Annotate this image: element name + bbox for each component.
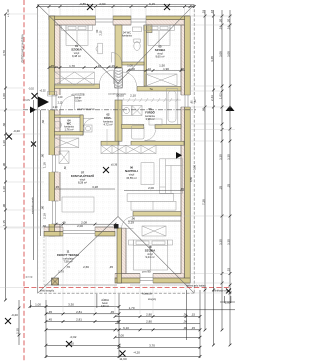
svg-text:-3,3cm: -3,3cm <box>74 100 81 103</box>
svg-text:,60: ,60 <box>226 107 230 112</box>
svg-text:szegély: szegély <box>23 100 31 102</box>
svg-text:,45: ,45 <box>109 265 114 269</box>
svg-text:2,81: 2,81 <box>76 310 82 314</box>
svg-text:2,00: 2,00 <box>148 186 154 190</box>
svg-text:-0,20: -0,20 <box>13 129 20 133</box>
svg-text:,18: ,18 <box>210 9 214 14</box>
svg-text:2,10: 2,10 <box>100 30 103 35</box>
svg-text:9,24 m²: 9,24 m² <box>145 255 154 259</box>
svg-text:,15: ,15 <box>191 326 196 330</box>
svg-text:ajtó tokosztó vonala: ajtó tokosztó vonala <box>77 107 96 110</box>
svg-text:-0,02: -0,02 <box>70 335 77 339</box>
svg-text:3,30: 3,30 <box>218 154 222 160</box>
svg-text:1,00: 1,00 <box>58 96 63 99</box>
svg-text:,45: ,45 <box>180 67 185 71</box>
svg-text:±0,36: ±0,36 <box>111 164 118 167</box>
svg-text:NAPPALI: NAPPALI <box>125 169 138 173</box>
svg-text:4,50: 4,50 <box>189 176 193 182</box>
svg-text:,40: ,40 <box>194 99 197 103</box>
svg-text:9,48 m²: 9,48 m² <box>72 54 81 58</box>
svg-text:+0,02: +0,02 <box>39 90 46 93</box>
svg-text:,46: ,46 <box>42 224 47 228</box>
svg-text:1,00: 1,00 <box>129 67 135 71</box>
svg-text:11,60: 11,60 <box>119 357 127 361</box>
svg-text:,45: ,45 <box>54 65 58 69</box>
svg-text:3,70: 3,70 <box>2 50 6 56</box>
svg-text:,90: ,90 <box>2 203 6 208</box>
svg-text:4,72 m²: 4,72 m² <box>103 123 112 127</box>
svg-text:,90: ,90 <box>2 162 6 167</box>
svg-text:3,30: 3,30 <box>226 154 230 160</box>
svg-text:,25: ,25 <box>218 185 222 190</box>
svg-text:2,15: 2,15 <box>58 102 63 105</box>
svg-text:,45: ,45 <box>48 318 53 322</box>
svg-text:1,00: 1,00 <box>2 93 6 99</box>
svg-text:7,28: 7,28 <box>201 199 205 205</box>
svg-text:2,00: 2,00 <box>77 224 83 228</box>
svg-text:9,60 m²: 9,60 m² <box>155 55 164 59</box>
svg-text:,60: ,60 <box>2 122 6 127</box>
svg-text:,60: ,60 <box>41 119 45 124</box>
svg-text:+1,10: +1,10 <box>6 9 10 17</box>
svg-text:3,30: 3,30 <box>218 239 222 245</box>
svg-text:,90: ,90 <box>41 205 45 210</box>
svg-text:1,70: 1,70 <box>58 270 64 274</box>
svg-text:-0,60: -0,60 <box>99 2 106 6</box>
svg-text:3,28: 3,28 <box>92 185 98 189</box>
svg-text:03: 03 <box>149 107 152 111</box>
svg-text:,20: ,20 <box>226 18 230 23</box>
svg-text:-4,20: -4,20 <box>133 350 140 354</box>
svg-text:7,00: 7,00 <box>118 333 124 337</box>
svg-text:1,02: 1,02 <box>218 93 222 99</box>
svg-text:,16: ,16 <box>218 25 222 30</box>
svg-text:15,55 m²: 15,55 m² <box>126 176 137 180</box>
svg-text:2,66: 2,66 <box>83 265 89 269</box>
svg-text:építési hely határa: építési hely határa <box>186 284 206 287</box>
svg-text:,45: ,45 <box>48 310 53 314</box>
svg-text:3,70: 3,70 <box>149 343 155 347</box>
svg-text:1,90: 1,90 <box>163 67 169 71</box>
svg-text:-0,85: -0,85 <box>79 2 86 6</box>
svg-text:,20: ,20 <box>218 18 222 23</box>
svg-text:3,08: 3,08 <box>226 51 230 57</box>
svg-text:2,81: 2,81 <box>76 318 82 322</box>
svg-text:2,80: 2,80 <box>146 320 152 324</box>
svg-text:telekhatár von.: telekhatár von. <box>213 290 229 293</box>
svg-text:1,70: 1,70 <box>69 64 75 68</box>
svg-text:,45: ,45 <box>180 187 185 191</box>
svg-text:2,19: 2,19 <box>128 220 134 224</box>
svg-text:4,48: 4,48 <box>210 56 214 62</box>
svg-text:,70: ,70 <box>66 265 71 269</box>
svg-text:,16: ,16 <box>226 25 230 30</box>
svg-text:7a: 7a <box>149 87 153 91</box>
svg-text:3,30: 3,30 <box>68 341 74 345</box>
svg-text:szigetelés vonala: szigetelés vonala <box>31 196 34 214</box>
svg-text:1,70: 1,70 <box>129 306 135 310</box>
svg-text:,10: ,10 <box>147 67 152 71</box>
svg-text:1,18: 1,18 <box>43 162 47 168</box>
svg-text:1,20: 1,20 <box>2 186 6 192</box>
svg-text:,36: ,36 <box>183 326 188 330</box>
svg-text:3,98 m²: 3,98 m² <box>145 117 154 121</box>
svg-text:3,30: 3,30 <box>226 239 230 245</box>
svg-text:,60: ,60 <box>64 166 67 170</box>
svg-text:küszöb: küszöb <box>142 292 152 296</box>
svg-text:3,50: 3,50 <box>192 164 196 170</box>
svg-text:kerámia: kerámia <box>122 34 132 38</box>
svg-text:2,10: 2,10 <box>53 106 58 109</box>
svg-text:1,00: 1,00 <box>225 300 231 304</box>
svg-text:,10: ,10 <box>97 64 102 68</box>
svg-text:,45: ,45 <box>110 310 115 314</box>
svg-text:2,43: 2,43 <box>210 95 214 101</box>
svg-text:1,15: 1,15 <box>2 220 6 226</box>
svg-text:-0,20: -0,20 <box>11 313 18 317</box>
svg-text:2,80: 2,80 <box>146 313 152 317</box>
svg-text:3,30: 3,30 <box>68 303 74 307</box>
svg-text:2,30: 2,30 <box>16 328 20 334</box>
svg-text:,18: ,18 <box>201 9 205 14</box>
svg-text:1,76 m²: 1,76 m² <box>64 128 73 132</box>
svg-text:6,10: 6,10 <box>123 326 129 330</box>
svg-text:1,29: 1,29 <box>109 64 115 68</box>
svg-text:,36: ,36 <box>183 313 188 317</box>
svg-text:3,08: 3,08 <box>218 51 222 57</box>
svg-text:,36: ,36 <box>183 320 188 324</box>
svg-text:,60: ,60 <box>201 107 205 112</box>
svg-text:,15: ,15 <box>226 267 230 272</box>
svg-text:,45: ,45 <box>55 185 60 189</box>
svg-text:,40: ,40 <box>61 220 66 224</box>
svg-text:ép.hely: ép.hely <box>25 277 33 279</box>
svg-text:8,28 m²: 8,28 m² <box>78 181 87 185</box>
svg-text:±0,00: ±0,00 <box>116 94 124 98</box>
svg-text:pm 90: pm 90 <box>142 270 151 274</box>
svg-text:6,15: 6,15 <box>149 2 155 6</box>
svg-text:-0,02: -0,02 <box>28 88 34 91</box>
svg-text:szegély: szegély <box>148 298 157 301</box>
svg-text:7,58 m²: 7,58 m² <box>63 260 72 264</box>
svg-text:,15: ,15 <box>191 313 196 317</box>
svg-text:07: 07 <box>81 171 84 175</box>
svg-text:térkő szegély: térkő szegély <box>40 290 55 293</box>
svg-text:,90: ,90 <box>41 153 45 158</box>
svg-text:,45: ,45 <box>116 320 121 324</box>
svg-text:1,20: 1,20 <box>2 140 6 146</box>
svg-text:2,10: 2,10 <box>130 94 136 98</box>
svg-text:02: 02 <box>107 113 110 117</box>
svg-text:2,19: 2,19 <box>43 213 47 219</box>
svg-text:,25: ,25 <box>226 183 230 188</box>
svg-text:1,00: 1,00 <box>35 303 41 307</box>
